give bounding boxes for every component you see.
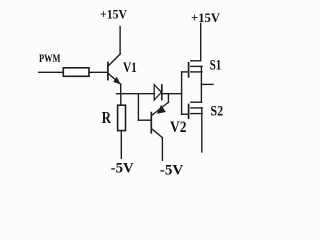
wire V1 emitter down to node A	[120, 84, 122, 93]
mosfet S2 gate bar	[188, 104, 190, 118]
wire S1 gate lead	[182, 71, 188, 73]
transistor V2 emitter lead with arrow (PNP, arrow toward base)	[152, 102, 169, 115]
svg-text:+15V: +15V	[100, 8, 127, 22]
svg-text:V1: V1	[123, 60, 137, 76]
wire S2 source down	[201, 108, 203, 152]
transistor V2 base bar	[150, 113, 152, 133]
wire PWM input	[39, 71, 64, 73]
wire resistor to V1 base	[89, 71, 107, 73]
mosfet S2 middle stripe	[191, 107, 202, 109]
svg-text:+15V: +15V	[191, 11, 220, 25]
diode VD cathode bar	[161, 85, 163, 100]
wire output stub (S1 source / S2 drain junction)	[201, 83, 213, 85]
svg-text:-5V: -5V	[160, 163, 184, 179]
mosfet S1 source stripe	[191, 71, 202, 73]
mosfet S1 middle stripe	[191, 65, 202, 67]
transistor V1 emitter lead with arrow	[108, 73, 121, 84]
svg-text:S2: S2	[210, 103, 223, 119]
svg-text:R: R	[102, 108, 112, 127]
wire V2 emitter up to diode cathode node	[167, 94, 169, 103]
wire V2 base horizontal	[138, 119, 151, 121]
mosfet S1 drain stripe	[191, 60, 201, 62]
diode VD anode triangle	[154, 85, 161, 100]
wire S2 gate lead	[182, 113, 188, 115]
resistor R	[118, 105, 126, 130]
transistor V1 collector lead	[108, 54, 120, 66]
wire node A down-drop toward V2 base	[137, 94, 139, 121]
wire R bottom to -5V	[120, 131, 122, 159]
wire V2 collector down to -5V	[161, 138, 163, 161]
svg-text:-5V: -5V	[111, 161, 135, 177]
wire node A to resistor R top	[120, 94, 122, 106]
wire +15V to V1 collector	[119, 27, 121, 54]
mosfet S2 source stripe	[191, 113, 202, 115]
svg-text:S1: S1	[210, 58, 222, 74]
transistor V2 collector lead	[152, 129, 163, 138]
transistor V1 base bar	[107, 63, 109, 80]
resistor (PWM series, unlabeled)	[63, 68, 89, 77]
mosfet S2 drain stripe	[191, 101, 202, 103]
mosfet S1 gate bar	[188, 63, 190, 77]
wire diode cathode to gate bus	[162, 93, 182, 95]
svg-text:V2: V2	[170, 119, 187, 136]
wire +15V to S1 drain	[200, 23, 202, 60]
wire node A horizontal (emitter node to diode anode)	[117, 93, 155, 95]
wire gate bus vertical (S1 gate to S2 gate)	[181, 72, 183, 114]
wire S1 source down to S2 drain	[200, 66, 202, 102]
svg-text:PWM: PWM	[39, 53, 61, 65]
